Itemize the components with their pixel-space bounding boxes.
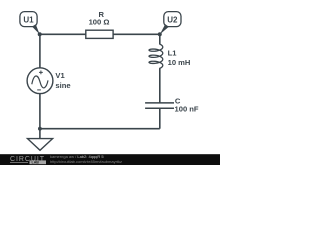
- svg-text:100 Ω: 100 Ω: [89, 17, 110, 26]
- node label U1 pointer wedge: [32, 24, 40, 34]
- footer CircuitLab logo LAB line: [10, 162, 28, 164]
- svg-text:100 nF: 100 nF: [175, 105, 199, 114]
- wire left vertical lower (V1 minus terminal to ground junction): [39, 94, 41, 139]
- svg-text:L1: L1: [168, 49, 178, 58]
- footer CircuitLab logo LAB box: [30, 160, 47, 164]
- wire bottom (ground junction to capacitor C bottom): [40, 128, 160, 130]
- V1 plus sign: [39, 71, 43, 75]
- wire right lower (capacitor C bottom to bottom wire): [159, 108, 161, 128]
- svg-text:V1: V1: [55, 71, 65, 80]
- capacitor C bottom plate: [145, 107, 174, 109]
- svg-text:LAB: LAB: [32, 161, 40, 165]
- svg-text:sine: sine: [55, 81, 70, 90]
- junction node U1 dot: [38, 32, 42, 36]
- node label U2 box: [164, 12, 181, 27]
- node label U2 pointer wedge: [160, 24, 169, 34]
- junction node U2 dot: [158, 32, 162, 36]
- ground symbol: [28, 139, 53, 151]
- capacitor C top plate: [145, 102, 174, 104]
- wire left vertical (node U1 to V1 plus terminal): [39, 34, 41, 68]
- node label U1 box: [20, 12, 37, 27]
- wire right upper (node U2 to inductor L1): [159, 34, 161, 44]
- resistor R1 body: [86, 30, 113, 38]
- wire right middle (inductor L1 to capacitor C top): [159, 68, 161, 102]
- wire top-right (resistor R to node U2): [113, 33, 160, 35]
- V1 minus sign: [37, 89, 41, 91]
- svg-text:U2: U2: [167, 16, 178, 25]
- inductor L1 coil: [149, 44, 163, 69]
- wire top-left (node U1 to resistor R): [40, 33, 86, 35]
- svg-text:U1: U1: [23, 16, 34, 25]
- V1 sine wave glyph: [32, 76, 48, 88]
- svg-text:http:⁄⁄circuitlab.com⁄c⁄re85mv: http:⁄⁄circuitlab.com⁄c⁄re85mvfaubmayrtk…: [50, 159, 122, 164]
- junction ground dot: [38, 127, 42, 131]
- voltage source V1 circle: [27, 68, 53, 94]
- footer bar: [0, 154, 220, 165]
- svg-text:10 mH: 10 mH: [168, 58, 191, 67]
